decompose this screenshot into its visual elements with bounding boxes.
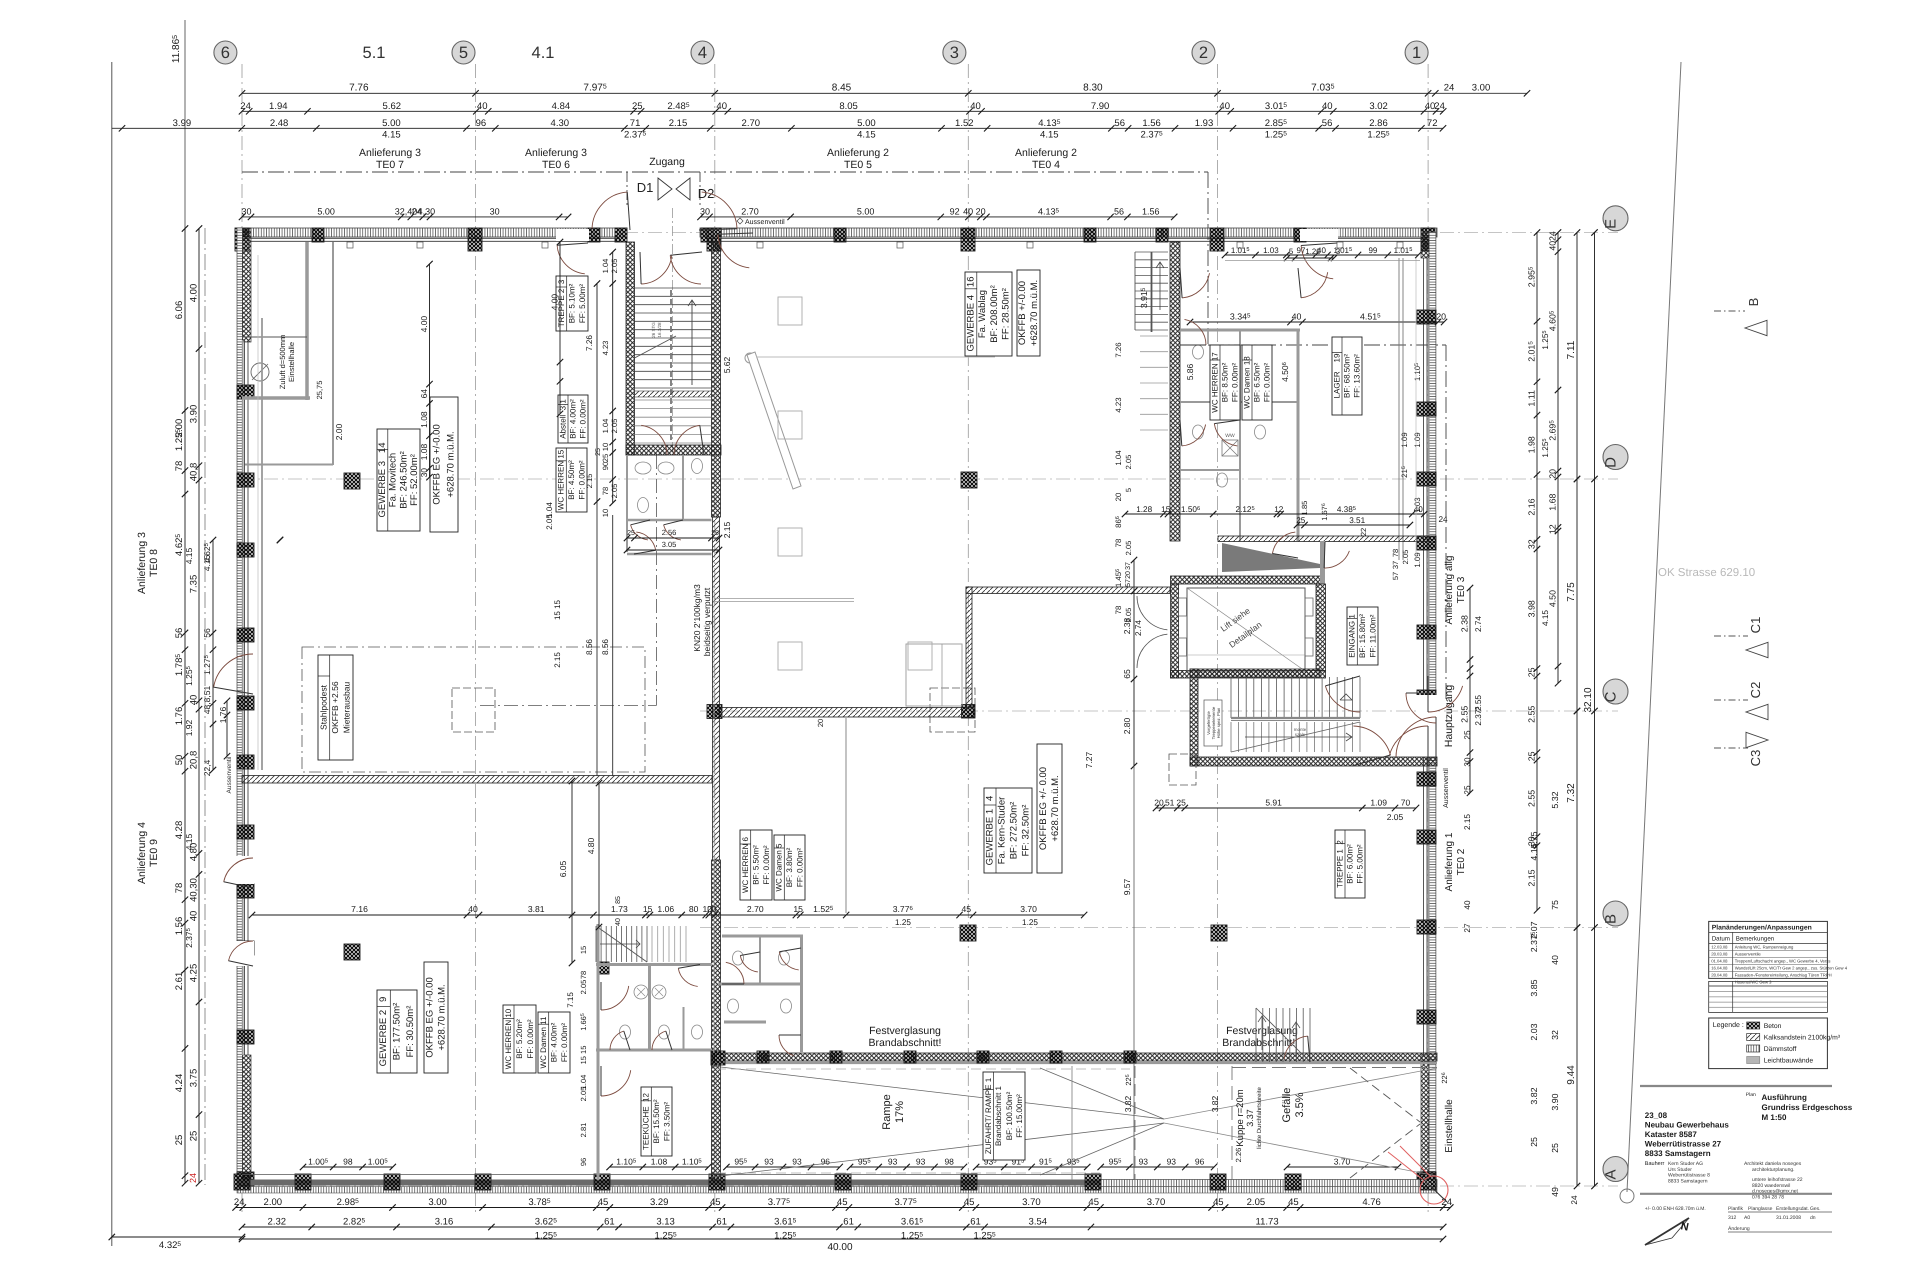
svg-text:78: 78 (579, 971, 588, 979)
svg-text:WC HERREN 17: WC HERREN 17 (1211, 352, 1220, 413)
svg-text:E: E (1603, 219, 1620, 229)
svg-text:40: 40 (1463, 900, 1472, 910)
svg-text:1.56: 1.56 (1142, 118, 1161, 129)
svg-text:FF: 0.00m²: FF: 0.00m² (526, 1019, 535, 1058)
svg-text:15: 15 (643, 904, 653, 914)
svg-text:3.82: 3.82 (1210, 1095, 1220, 1112)
svg-text:3.70: 3.70 (1147, 1197, 1166, 1208)
svg-text:40: 40 (477, 101, 488, 112)
svg-text:+628.70 m.ü.M.: +628.70 m.ü.M. (437, 984, 448, 1050)
svg-text:2.56: 2.56 (662, 528, 677, 537)
svg-text:3.05: 3.05 (662, 540, 677, 549)
svg-text:3.82: 3.82 (1529, 1087, 1539, 1104)
svg-text:OK Strasse 629.10: OK Strasse 629.10 (1658, 567, 1755, 579)
svg-text:Festverglasung: Festverglasung (869, 1025, 941, 1037)
svg-text:2.05: 2.05 (1387, 812, 1404, 822)
svg-text:076 394 28 78: 076 394 28 78 (1752, 1194, 1784, 1200)
svg-text:37: 37 (1125, 562, 1132, 570)
svg-text:Anlieferung 3: Anlieferung 3 (136, 532, 148, 594)
svg-text:Ges.: Ges. (1810, 1206, 1821, 1212)
svg-text:25: 25 (632, 101, 643, 112)
svg-text:TE0 3: TE0 3 (1456, 576, 1467, 603)
svg-text:Fa. Kern-Studer: Fa. Kern-Studer (997, 797, 1008, 865)
svg-text:A: A (1603, 1169, 1620, 1179)
svg-text:+628.70 m.ü.M.: +628.70 m.ü.M. (1050, 775, 1061, 841)
svg-text:Anlieferung allg: Anlieferung allg (1444, 556, 1455, 625)
svg-text:32.10: 32.10 (1583, 687, 1594, 712)
svg-text:1.06: 1.06 (657, 904, 674, 914)
svg-text:WC Damen 18: WC Damen 18 (1243, 356, 1252, 409)
svg-text:Kalksandstein 2100kg/m³: Kalksandstein 2100kg/m³ (1764, 1035, 1841, 1042)
svg-text:20: 20 (1548, 469, 1558, 479)
svg-text:BF: 4.50m²: BF: 4.50m² (567, 460, 576, 500)
svg-text:5.00: 5.00 (857, 206, 875, 216)
svg-text:2.00: 2.00 (264, 1197, 283, 1208)
svg-text:3.70: 3.70 (1020, 904, 1037, 914)
svg-text:2.55: 2.55 (1527, 790, 1537, 807)
svg-text:8.05: 8.05 (839, 101, 858, 112)
svg-text:Höhe spez. Plan: Höhe spez. Plan (1216, 707, 1221, 738)
svg-text:Aussenventil: Aussenventil (745, 218, 785, 226)
svg-text:78: 78 (1114, 606, 1123, 615)
svg-text:30: 30 (700, 206, 710, 216)
svg-text:1.52: 1.52 (955, 118, 974, 129)
svg-text:2.81: 2.81 (579, 1123, 588, 1138)
svg-text:4.23: 4.23 (601, 341, 610, 356)
svg-text:BF: 8.50m²: BF: 8.50m² (1221, 362, 1230, 402)
svg-text:architekturplanung.: architekturplanung. (1752, 1167, 1795, 1173)
svg-text:Wandst/Lift 25cm, WC/Tr Gew 2: Wandst/Lift 25cm, WC/Tr Gew 2 angep., zu… (1735, 966, 1848, 971)
svg-text:FF: 3.50m²: FF: 3.50m² (662, 1102, 671, 1141)
svg-text:40 20: 40 20 (963, 206, 986, 216)
svg-text:2.74: 2.74 (1134, 620, 1143, 636)
svg-text:lichte Durchfahrtsbreite: lichte Durchfahrtsbreite (1256, 1086, 1263, 1148)
svg-text:3.82: 3.82 (1123, 1095, 1133, 1112)
svg-text:3.00: 3.00 (1472, 83, 1491, 94)
svg-text:Plan: Plan (1746, 1092, 1756, 1098)
svg-text:15 15: 15 15 (579, 1046, 588, 1065)
svg-text:1.93: 1.93 (1195, 118, 1214, 129)
svg-text:C: C (1603, 691, 1620, 702)
svg-text:FF: 28.50m²: FF: 28.50m² (1001, 288, 1012, 340)
svg-text:OKFFB +2.56: OKFFB +2.56 (330, 681, 340, 733)
svg-text:56: 56 (1322, 118, 1333, 129)
svg-text:3.90: 3.90 (1550, 1093, 1560, 1110)
svg-text:25: 25 (601, 454, 610, 462)
svg-text:4.00: 4.00 (419, 316, 429, 333)
svg-text:20,8: 20,8 (189, 751, 200, 770)
svg-text:Kataster 8587: Kataster 8587 (1645, 1130, 1698, 1139)
svg-text:5.00: 5.00 (317, 206, 335, 216)
svg-text:40: 40 (615, 918, 622, 926)
svg-text:Planänderungen/Anpassungen: Planänderungen/Anpassungen (1712, 924, 1812, 931)
svg-text:24: 24 (1570, 1195, 1579, 1205)
svg-text:D: D (1603, 457, 1620, 468)
svg-text:WC HERREN 15: WC HERREN 15 (557, 449, 566, 510)
svg-text:GEWERBE 4 16: GEWERBE 4 16 (965, 277, 976, 352)
svg-text:TEEKÜCHE 12: TEEKÜCHE 12 (642, 1092, 651, 1149)
svg-text:4.1: 4.1 (532, 44, 555, 62)
svg-text:7.76: 7.76 (349, 83, 369, 94)
svg-text:FF: 0.00m²: FF: 0.00m² (762, 845, 771, 884)
svg-text:2.61: 2.61 (174, 972, 185, 991)
svg-text:40: 40 (1292, 312, 1302, 322)
svg-text:Hauptzugang: Hauptzugang (1443, 685, 1455, 748)
svg-text:5.62: 5.62 (722, 356, 732, 373)
svg-text:7.15: 7.15 (566, 992, 575, 1008)
svg-text:56: 56 (202, 628, 212, 638)
svg-text:49: 49 (1550, 1187, 1560, 1197)
svg-text:40: 40 (716, 101, 727, 112)
svg-text:24: 24 (1438, 515, 1448, 524)
svg-text:2.15: 2.15 (669, 118, 688, 129)
svg-text:4.25: 4.25 (189, 964, 200, 983)
svg-text:5.1: 5.1 (363, 44, 386, 62)
svg-text:+628.70 m.ü.M.: +628.70 m.ü.M. (446, 431, 457, 497)
svg-text:4.30: 4.30 (551, 118, 570, 129)
svg-text:TE0 8: TE0 8 (148, 549, 160, 577)
svg-text:25: 25 (627, 530, 635, 537)
svg-text:15: 15 (793, 904, 803, 914)
svg-text:3: 3 (950, 44, 959, 62)
svg-text:2.05: 2.05 (1124, 455, 1133, 470)
svg-text:25: 25 (1550, 1143, 1560, 1153)
svg-text:+/- 0.00 ENH 628.70m ü.M.: +/- 0.00 ENH 628.70m ü.M. (1645, 1206, 1706, 1212)
svg-text:1.08: 1.08 (419, 411, 429, 428)
svg-text:40.00: 40.00 (827, 1242, 852, 1253)
svg-text:25: 25 (174, 1135, 185, 1146)
svg-text:9.44: 9.44 (1566, 1065, 1577, 1085)
svg-text:15 15: 15 15 (553, 599, 562, 620)
svg-text:50: 50 (174, 755, 185, 766)
svg-text:26 STG: 26 STG (651, 322, 656, 338)
svg-text:Zugang: Zugang (649, 156, 685, 168)
svg-text:2.70: 2.70 (747, 904, 764, 914)
svg-text:4.80: 4.80 (586, 837, 596, 854)
svg-text:TE0 5: TE0 5 (844, 159, 872, 171)
svg-text:28.04.08: 28.04.08 (1711, 973, 1728, 978)
svg-text:BF: 208.00m²: BF: 208.00m² (989, 285, 1000, 343)
svg-text:C2: C2 (1748, 682, 1763, 699)
svg-text:FF: 5.00m²: FF: 5.00m² (578, 284, 587, 323)
svg-text:BF: 100.50m²: BF: 100.50m² (1005, 1091, 1014, 1140)
svg-text:OKFFB EG +/- 0.00: OKFFB EG +/- 0.00 (1038, 767, 1049, 850)
svg-text:4.15: 4.15 (1541, 610, 1550, 626)
svg-text:96: 96 (821, 1157, 831, 1167)
svg-text:17%: 17% (894, 1101, 906, 1123)
svg-text:4.00: 4.00 (189, 284, 200, 303)
svg-text:2.05: 2.05 (610, 419, 619, 434)
svg-text:1.11: 1.11 (1527, 390, 1537, 407)
svg-text:M 1:50: M 1:50 (1762, 1113, 1787, 1122)
svg-text:99: 99 (1368, 246, 1377, 255)
svg-text:10: 10 (601, 443, 610, 451)
svg-text:BF: 15.50m²: BF: 15.50m² (652, 1099, 661, 1143)
svg-text:Anleitung WC, Rampenneigung: Anleitung WC, Rampenneigung (1735, 945, 1794, 950)
svg-text:57: 57 (1391, 572, 1400, 580)
svg-text:3.85: 3.85 (1529, 979, 1539, 996)
svg-text:7.27: 7.27 (1084, 751, 1094, 768)
svg-text:FF: 0.00m²: FF: 0.00m² (579, 399, 588, 438)
svg-text:8.30: 8.30 (1083, 83, 1103, 94)
svg-text:2.74: 2.74 (1474, 616, 1483, 632)
svg-text:92: 92 (950, 206, 960, 216)
svg-text:1.68: 1.68 (1548, 494, 1558, 511)
svg-text:4.76: 4.76 (1362, 1197, 1381, 1208)
svg-text:45: 45 (964, 1197, 975, 1208)
svg-text:Brandabschnitt 1: Brandabschnitt 1 (994, 1085, 1003, 1146)
svg-text:30: 30 (490, 206, 500, 216)
svg-text:15: 15 (1161, 505, 1171, 514)
svg-text:5: 5 (1124, 488, 1133, 492)
svg-text:Ausführung: Ausführung (1762, 1093, 1807, 1102)
svg-text:51: 51 (1165, 798, 1175, 808)
svg-text:56: 56 (1114, 118, 1125, 129)
svg-text:BF: 6.50m²: BF: 6.50m² (1253, 362, 1262, 402)
svg-text:1.08: 1.08 (419, 443, 429, 460)
svg-text:37: 37 (1391, 561, 1400, 569)
svg-text:Gefälle: Gefälle (1281, 1088, 1293, 1123)
svg-text:4: 4 (698, 44, 707, 62)
svg-text:7.75: 7.75 (1566, 582, 1577, 602)
svg-text:Weberrütistrasse 27: Weberrütistrasse 27 (1645, 1140, 1722, 1149)
svg-text:Anlieferung 1: Anlieferung 1 (1444, 832, 1455, 891)
svg-text:2.15: 2.15 (1463, 814, 1472, 830)
svg-text:Aussenventil: Aussenventil (226, 756, 233, 793)
svg-text:FF: 32.50m²: FF: 32.50m² (1021, 805, 1032, 857)
svg-text:96: 96 (579, 1158, 588, 1166)
svg-text:1.94: 1.94 (269, 101, 288, 112)
svg-text:TE0 2: TE0 2 (1456, 848, 1467, 875)
svg-text:BF: 246.50m²: BF: 246.50m² (398, 451, 409, 509)
svg-text:25: 25 (1527, 751, 1537, 761)
svg-text:FF: 52.00m²: FF: 52.00m² (409, 454, 420, 506)
svg-text:3.90: 3.90 (189, 405, 200, 424)
svg-text:78: 78 (601, 487, 610, 495)
svg-text:WC HERREN 6: WC HERREN 6 (741, 836, 750, 893)
svg-text:98: 98 (944, 1157, 954, 1167)
svg-text:2.05: 2.05 (1247, 1197, 1266, 1208)
svg-text:48,8,51: 48,8,51 (202, 686, 212, 715)
svg-text:D1: D1 (637, 180, 654, 195)
svg-text:93: 93 (792, 1157, 802, 1167)
svg-text:25,75: 25,75 (315, 381, 324, 400)
svg-text:GEWERBE 1 4: GEWERBE 1 4 (985, 796, 996, 866)
svg-text:B: B (1603, 914, 1620, 924)
svg-text:Stahlpodest: Stahlpodest (318, 684, 328, 730)
svg-text:24: 24 (234, 1197, 245, 1208)
svg-text:96: 96 (1195, 1157, 1205, 1167)
svg-text:16.3/28: 16.3/28 (657, 322, 662, 338)
svg-text:1.28: 1.28 (1136, 505, 1152, 514)
svg-text:40: 40 (1322, 101, 1333, 112)
svg-text:40: 40 (1414, 505, 1424, 514)
svg-text:15: 15 (579, 946, 588, 954)
svg-text:1.25: 1.25 (895, 918, 911, 927)
svg-text:4.30: 4.30 (418, 206, 436, 216)
svg-text:BF: 4.00m²: BF: 4.00m² (550, 1022, 559, 1062)
svg-text:4.15: 4.15 (1529, 843, 1539, 860)
svg-text:2.05: 2.05 (610, 484, 619, 499)
svg-text:4.00: 4.00 (550, 294, 560, 311)
svg-text:Aussenventile: Aussenventile (1735, 952, 1762, 957)
svg-text:Aussenventil: Aussenventil (1442, 768, 1450, 808)
svg-text:LAGER 19: LAGER 19 (1333, 353, 1342, 398)
svg-text:GEWERBE 3 14: GEWERBE 3 14 (377, 443, 388, 518)
svg-text:Legende :: Legende : (1713, 1021, 1744, 1029)
svg-text:5.00: 5.00 (857, 118, 876, 129)
svg-text:WW: WW (1225, 433, 1235, 439)
svg-text:61: 61 (843, 1217, 854, 1228)
svg-text:szale: szale (1295, 732, 1306, 737)
svg-text:24: 24 (1548, 231, 1558, 241)
svg-text:OKFFB +/-0.00: OKFFB +/-0.00 (1017, 281, 1028, 345)
svg-text:20: 20 (1154, 798, 1164, 808)
svg-text:25: 25 (1463, 730, 1472, 740)
svg-text:BF: 5.50m²: BF: 5.50m² (752, 845, 761, 885)
svg-text:12: 12 (1274, 505, 1284, 514)
svg-text:1.08: 1.08 (651, 1157, 668, 1167)
svg-text:Änderung: Änderung (1728, 1225, 1750, 1232)
svg-text:8.56: 8.56 (585, 639, 594, 655)
svg-text:22,4: 22,4 (202, 759, 212, 776)
svg-text:1.09: 1.09 (1400, 432, 1409, 447)
svg-text:5.91: 5.91 (1265, 798, 1282, 808)
svg-text:TE0 7: TE0 7 (376, 159, 404, 171)
svg-text:Anlieferung 2: Anlieferung 2 (1015, 147, 1077, 159)
svg-text:32: 32 (1527, 539, 1537, 549)
svg-text:45: 45 (598, 1197, 609, 1208)
svg-text:25: 25 (1527, 667, 1537, 677)
svg-text:40: 40 (189, 695, 200, 706)
svg-text:25: 25 (1176, 798, 1186, 808)
svg-text:90: 90 (601, 462, 610, 470)
svg-text:Fa. Wablag: Fa. Wablag (977, 290, 988, 338)
svg-text:75: 75 (1550, 900, 1560, 910)
svg-text:11.73: 11.73 (1256, 1217, 1279, 1228)
svg-text:40: 40 (1219, 101, 1230, 112)
svg-text:BF: 6.00m²: BF: 6.00m² (1346, 844, 1355, 884)
svg-text:2.48: 2.48 (270, 118, 289, 129)
svg-text:Neubau Gewerbehaus: Neubau Gewerbehaus (1645, 1121, 1730, 1130)
svg-text:Fa. Movitech: Fa. Movitech (388, 453, 399, 507)
svg-text:8833 Samstagern: 8833 Samstagern (1668, 1178, 1708, 1184)
svg-text:25: 25 (1463, 785, 1472, 795)
svg-text:30: 30 (241, 206, 251, 216)
svg-text:2.70: 2.70 (741, 206, 759, 216)
svg-text:20: 20 (1436, 312, 1446, 322)
svg-text:FF: 5.00m²: FF: 5.00m² (1356, 844, 1365, 883)
svg-text:Mieterausbau: Mieterausbau (342, 681, 352, 733)
svg-text:1.03: 1.03 (1263, 246, 1279, 255)
svg-text:BF: 15.80m²: BF: 15.80m² (1358, 614, 1367, 658)
svg-text:2.15: 2.15 (585, 474, 594, 489)
svg-text:65: 65 (1122, 669, 1132, 679)
svg-text:FF: 0.00m²: FF: 0.00m² (560, 1023, 569, 1062)
svg-text:7.11: 7.11 (1566, 340, 1577, 359)
svg-text:3.81: 3.81 (528, 904, 545, 914)
svg-text:3.51: 3.51 (1349, 516, 1365, 525)
svg-text:12: 12 (1548, 524, 1558, 534)
svg-text:56: 56 (1114, 206, 1124, 216)
svg-text:Anlieferung 3: Anlieferung 3 (359, 147, 421, 159)
svg-text:2.15: 2.15 (1527, 869, 1537, 886)
svg-text:3.99: 3.99 (173, 118, 192, 129)
svg-text:TE0 6: TE0 6 (542, 159, 570, 171)
svg-text:1.04: 1.04 (601, 259, 610, 274)
svg-text:78: 78 (1391, 549, 1400, 557)
svg-text:01.04.08: 01.04.08 (1711, 959, 1728, 964)
svg-text:20: 20 (1125, 571, 1132, 579)
svg-text:24: 24 (240, 101, 251, 112)
svg-text:25: 25 (595, 448, 602, 456)
svg-text:45: 45 (962, 904, 972, 914)
svg-text:2.05: 2.05 (579, 1087, 588, 1102)
svg-text:2.38: 2.38 (1460, 615, 1470, 632)
svg-text:Hosenst/WC Gew 3: Hosenst/WC Gew 3 (1735, 980, 1772, 985)
svg-text:OKFFB EG +/-0.00: OKFFB EG +/-0.00 (432, 424, 443, 505)
svg-text:25: 25 (189, 1131, 200, 1142)
svg-text:2.05: 2.05 (545, 514, 554, 530)
svg-text:Dämmstoff: Dämmstoff (1764, 1046, 1797, 1053)
svg-text:7.16: 7.16 (351, 904, 368, 914)
svg-text:93: 93 (888, 1157, 898, 1167)
svg-text:Planfik: Planfik (1728, 1206, 1744, 1212)
svg-text:2.80: 2.80 (1122, 717, 1132, 734)
svg-text:1.09: 1.09 (1370, 798, 1387, 808)
svg-text:TE0 9: TE0 9 (148, 839, 160, 867)
svg-text:Einstellhalle: Einstellhalle (287, 342, 296, 382)
svg-text:7.35: 7.35 (189, 575, 200, 594)
svg-text:BF: 68.50m²: BF: 68.50m² (1343, 354, 1352, 398)
svg-text:4.15: 4.15 (1040, 130, 1059, 141)
svg-text:Zuluft d=500mm: Zuluft d=500mm (278, 335, 287, 389)
svg-text:40: 40 (1550, 955, 1560, 965)
svg-text:Fassaden-/Fenstereinteilung, A: Fassaden-/Fenstereinteilung, Anschlag Tü… (1735, 973, 1832, 978)
svg-text:dn: dn (1810, 1215, 1816, 1221)
svg-text:312: 312 (1728, 1215, 1737, 1221)
svg-text:BF: 5.10m²: BF: 5.10m² (568, 283, 577, 323)
svg-text:40: 40 (468, 904, 478, 914)
svg-text:A0: A0 (1744, 1215, 1750, 1221)
svg-text:4.15: 4.15 (202, 554, 212, 571)
svg-text:45: 45 (1088, 1197, 1099, 1208)
svg-text:+628.70 m.ü.M.: +628.70 m.ü.M. (1029, 280, 1040, 346)
svg-text:31.01.2008: 31.01.2008 (1776, 1215, 1801, 1221)
svg-text:24: 24 (1444, 83, 1455, 94)
svg-text:2.16: 2.16 (1527, 498, 1537, 515)
svg-text:5.00: 5.00 (382, 118, 401, 129)
svg-text:2.15: 2.15 (722, 521, 732, 538)
svg-text:40: 40 (1548, 241, 1558, 251)
svg-text:57: 57 (1125, 579, 1132, 587)
svg-text:25: 25 (1529, 1137, 1539, 1147)
svg-text:1.85: 1.85 (1300, 501, 1309, 516)
svg-text:BF: 272.50m²: BF: 272.50m² (1009, 802, 1020, 860)
svg-text:3: 3 (1336, 247, 1340, 256)
svg-text:40: 40 (970, 101, 981, 112)
svg-text:4.80: 4.80 (189, 843, 200, 862)
svg-text:93: 93 (1139, 1157, 1149, 1167)
svg-text:1.73: 1.73 (611, 904, 628, 914)
svg-text:25: 25 (1296, 516, 1306, 525)
svg-text:61: 61 (970, 1217, 981, 1228)
svg-text:96: 96 (476, 118, 487, 129)
svg-text:16.04.08: 16.04.08 (1711, 966, 1728, 971)
svg-text:TE0 4: TE0 4 (1032, 159, 1060, 171)
svg-text:1.04: 1.04 (1114, 450, 1123, 466)
svg-text:1.04: 1.04 (601, 419, 610, 434)
